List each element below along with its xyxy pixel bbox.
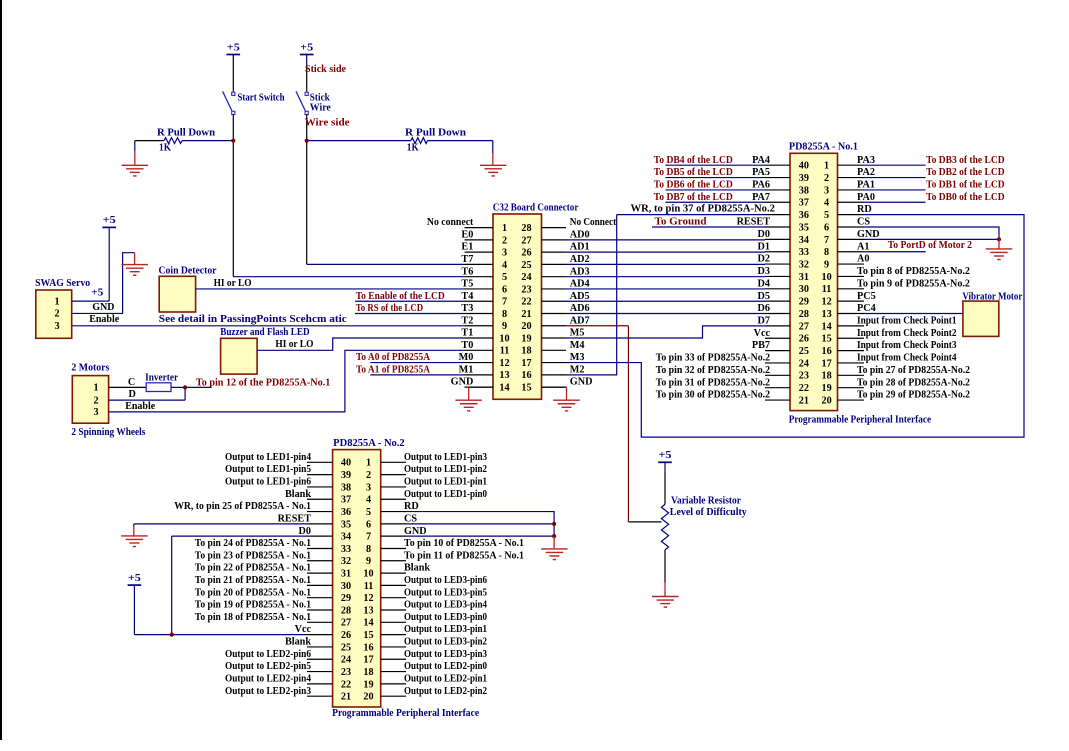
- svg-text:23: 23: [521, 284, 531, 295]
- svg-text:To DB4 of the LCD: To DB4 of the LCD: [654, 155, 733, 166]
- svg-text:32: 32: [799, 259, 809, 270]
- svg-text:Output to LED3-pin3: Output to LED3-pin3: [404, 649, 487, 660]
- svg-text:10: 10: [499, 333, 509, 344]
- svg-text:PD8255A - No.1: PD8255A - No.1: [789, 141, 858, 152]
- svg-text:Output to LED3-pin6: Output to LED3-pin6: [404, 575, 487, 586]
- svg-text:1: 1: [502, 223, 507, 234]
- svg-text:To DB5 of the LCD: To DB5 of the LCD: [654, 167, 733, 178]
- svg-text:Wire: Wire: [310, 103, 331, 114]
- svg-text:AD1: AD1: [570, 242, 590, 253]
- svg-text:2: 2: [824, 173, 829, 184]
- svg-text:PD8255A - No.2: PD8255A - No.2: [333, 438, 405, 449]
- svg-text:18: 18: [363, 667, 373, 678]
- svg-text:+5: +5: [227, 42, 240, 53]
- svg-text:38: 38: [341, 482, 351, 493]
- svg-text:27: 27: [341, 618, 351, 629]
- svg-text:To pin 22 of PD8255A - No.1: To pin 22 of PD8255A - No.1: [195, 563, 311, 574]
- svg-text:25: 25: [341, 642, 351, 653]
- svg-text:To pin 21 of PD8255A - No.1: To pin 21 of PD8255A - No.1: [195, 575, 311, 586]
- svg-text:3: 3: [824, 185, 829, 196]
- svg-text:PA7: PA7: [752, 192, 770, 203]
- svg-text:RD: RD: [857, 204, 872, 215]
- svg-text:9: 9: [366, 556, 371, 567]
- svg-text:30: 30: [799, 284, 809, 295]
- svg-text:R Pull Down: R Pull Down: [405, 127, 466, 138]
- svg-text:3: 3: [93, 407, 98, 418]
- svg-text:22: 22: [799, 383, 809, 394]
- svg-text:D4: D4: [758, 278, 770, 289]
- svg-text:AD0: AD0: [570, 229, 590, 240]
- svg-text:E1: E1: [461, 242, 473, 253]
- svg-text:32: 32: [341, 556, 351, 567]
- svg-text:6: 6: [502, 284, 507, 295]
- svg-text:17: 17: [521, 358, 531, 369]
- svg-text:30: 30: [341, 581, 351, 592]
- svg-text:5: 5: [824, 210, 829, 221]
- svg-text:Output to LED3-pin4: Output to LED3-pin4: [404, 600, 487, 611]
- svg-text:PA2: PA2: [857, 167, 875, 178]
- svg-text:10: 10: [822, 272, 832, 283]
- svg-text:T1: T1: [461, 328, 473, 339]
- svg-text:5: 5: [502, 272, 507, 283]
- svg-text:T2: T2: [461, 315, 473, 326]
- svg-text:To pin 31 of PD8255A-No.2: To pin 31 of PD8255A-No.2: [656, 377, 770, 388]
- svg-text:34: 34: [799, 235, 809, 246]
- svg-text:36: 36: [341, 507, 351, 518]
- svg-text:C32 Board Connector: C32 Board Connector: [493, 203, 579, 214]
- svg-text:23: 23: [341, 667, 351, 678]
- svg-text:CS: CS: [857, 217, 870, 228]
- svg-text:31: 31: [341, 568, 351, 579]
- svg-text:3: 3: [366, 482, 371, 493]
- svg-text:Variable Resistor: Variable Resistor: [671, 495, 741, 506]
- svg-text:D0: D0: [758, 229, 770, 240]
- svg-text:29: 29: [341, 593, 351, 604]
- svg-text:To Ground: To Ground: [655, 217, 707, 228]
- svg-text:2: 2: [93, 395, 98, 406]
- svg-text:22: 22: [521, 297, 531, 308]
- svg-text:19: 19: [822, 383, 832, 394]
- svg-text:11: 11: [364, 581, 374, 592]
- svg-text:To pin 9 of PD8255A-No.2: To pin 9 of PD8255A-No.2: [857, 278, 970, 289]
- svg-text:1: 1: [824, 161, 829, 172]
- svg-text:1K: 1K: [407, 143, 419, 154]
- svg-text:Output to LED1-pin3: Output to LED1-pin3: [404, 452, 487, 463]
- svg-text:PA6: PA6: [752, 180, 770, 191]
- svg-text:35: 35: [341, 519, 351, 530]
- svg-text:11: 11: [500, 346, 510, 357]
- svg-text:13: 13: [499, 370, 509, 381]
- svg-text:13: 13: [363, 605, 373, 616]
- svg-text:To RS of the LCD: To RS of the LCD: [356, 303, 423, 314]
- svg-text:To pin 30 of PD8255A-No.2: To pin 30 of PD8255A-No.2: [656, 390, 770, 401]
- svg-text:Wire side: Wire side: [305, 118, 351, 129]
- svg-text:To pin 27 of PD8255A-No.2: To pin 27 of PD8255A-No.2: [857, 365, 970, 376]
- svg-text:11: 11: [822, 284, 832, 295]
- svg-text:Output to LED2-pin1: Output to LED2-pin1: [404, 673, 487, 684]
- svg-text:4: 4: [824, 198, 829, 209]
- svg-text:2: 2: [54, 309, 59, 320]
- svg-text:24: 24: [341, 655, 351, 666]
- svg-text:M2: M2: [570, 364, 585, 375]
- svg-text:8: 8: [824, 247, 829, 258]
- svg-text:40: 40: [341, 458, 351, 469]
- svg-text:39: 39: [341, 470, 351, 481]
- svg-text:Programmable Peripheral Interf: Programmable Peripheral Interface: [332, 708, 479, 719]
- svg-text:Level of Difficulty: Level of Difficulty: [670, 507, 747, 518]
- svg-text:3: 3: [54, 321, 59, 332]
- svg-text:21: 21: [341, 692, 351, 703]
- svg-text:To pin 29 of PD8255A-No.2: To pin 29 of PD8255A-No.2: [857, 390, 970, 401]
- svg-text:Inverter: Inverter: [145, 372, 178, 383]
- svg-text:33: 33: [341, 544, 351, 555]
- svg-text:20: 20: [822, 395, 832, 406]
- svg-text:1: 1: [366, 458, 371, 469]
- svg-text:To PortD of Motor 2: To PortD of Motor 2: [888, 240, 972, 251]
- svg-text:5: 5: [366, 507, 371, 518]
- svg-text:Input from Check Point3: Input from Check Point3: [857, 340, 957, 351]
- svg-text:40: 40: [799, 161, 809, 172]
- svg-text:PA4: PA4: [752, 155, 770, 166]
- svg-text:AD2: AD2: [570, 254, 590, 265]
- svg-text:T4: T4: [461, 291, 473, 302]
- svg-text:35: 35: [799, 222, 809, 233]
- svg-text:28: 28: [341, 605, 351, 616]
- svg-text:37: 37: [799, 198, 809, 209]
- svg-text:To pin 20 of PD8255A - No.1: To pin 20 of PD8255A - No.1: [195, 587, 311, 598]
- svg-text:18: 18: [521, 346, 531, 357]
- svg-text:29: 29: [799, 297, 809, 308]
- svg-text:1: 1: [93, 383, 98, 394]
- svg-text:A0: A0: [857, 254, 869, 265]
- svg-text:6: 6: [824, 222, 829, 233]
- svg-text:15: 15: [822, 334, 832, 345]
- svg-text:RD: RD: [404, 501, 419, 512]
- svg-text:Output to LED2-pin3: Output to LED2-pin3: [225, 686, 311, 697]
- svg-text:27: 27: [799, 321, 809, 332]
- svg-text:26: 26: [341, 630, 351, 641]
- svg-text:Input from Check Point1: Input from Check Point1: [857, 315, 957, 326]
- svg-text:T6: T6: [461, 266, 473, 277]
- svg-text:2 Motors: 2 Motors: [71, 363, 109, 374]
- svg-text:PC5: PC5: [857, 291, 876, 302]
- svg-text:See detail in PassingPoints Sc: See detail in PassingPoints Scehcm atic: [159, 314, 348, 325]
- svg-text:21: 21: [521, 309, 531, 320]
- svg-text:31: 31: [799, 272, 809, 283]
- svg-text:No connect: No connect: [427, 217, 474, 228]
- svg-text:D0: D0: [299, 526, 311, 537]
- svg-text:To pin 12 of the PD8255A-No.1: To pin 12 of the PD8255A-No.1: [196, 378, 330, 389]
- svg-text:Vcc: Vcc: [754, 328, 771, 339]
- svg-text:2: 2: [366, 470, 371, 481]
- svg-text:To DB0 of the LCD: To DB0 of the LCD: [926, 192, 1005, 203]
- svg-text:T7: T7: [461, 254, 473, 265]
- svg-text:24: 24: [799, 358, 809, 369]
- svg-text:RESET: RESET: [737, 217, 771, 228]
- svg-text:Output to LED1-pin0: Output to LED1-pin0: [404, 489, 487, 500]
- svg-text:PA1: PA1: [857, 180, 875, 191]
- svg-text:Coin Detector: Coin Detector: [159, 265, 217, 276]
- svg-text:To pin 32 of PD8255A-No.2: To pin 32 of PD8255A-No.2: [656, 365, 770, 376]
- svg-text:12: 12: [822, 297, 832, 308]
- svg-text:D5: D5: [758, 291, 770, 302]
- svg-text:23: 23: [799, 371, 809, 382]
- svg-text:12: 12: [499, 358, 509, 369]
- svg-text:Output to LED3-pin5: Output to LED3-pin5: [404, 587, 487, 598]
- svg-text:A1: A1: [857, 241, 869, 252]
- svg-text:Enable: Enable: [125, 401, 155, 412]
- svg-text:To A0 of PD8255A: To A0 of PD8255A: [356, 352, 431, 363]
- svg-text:T3: T3: [461, 303, 473, 314]
- svg-text:To Enable of the LCD: To Enable of the LCD: [356, 291, 445, 302]
- svg-text:R Pull Down: R Pull Down: [157, 127, 215, 138]
- svg-text:Buzzer and Flash LED: Buzzer and Flash LED: [220, 327, 309, 338]
- svg-text:Output to LED1-pin2: Output to LED1-pin2: [404, 464, 487, 475]
- svg-text:Vibrator Motor: Vibrator Motor: [962, 292, 1022, 303]
- svg-text:D: D: [129, 389, 136, 400]
- svg-text:15: 15: [363, 630, 373, 641]
- svg-text:To DB2 of the LCD: To DB2 of the LCD: [926, 167, 1005, 178]
- svg-text:Vcc: Vcc: [295, 624, 312, 635]
- svg-text:Output to LED1-pin5: Output to LED1-pin5: [225, 464, 311, 475]
- svg-text:Blank: Blank: [404, 563, 430, 574]
- svg-text:22: 22: [341, 679, 351, 690]
- svg-text:19: 19: [521, 333, 531, 344]
- svg-text:Blank: Blank: [285, 637, 311, 648]
- svg-text:D6: D6: [758, 303, 770, 314]
- svg-text:SWAG Servo: SWAG Servo: [35, 278, 90, 289]
- svg-text:To A1 of PD8255A: To A1 of PD8255A: [356, 365, 431, 376]
- svg-text:Stick side: Stick side: [305, 64, 346, 75]
- svg-text:C: C: [128, 377, 135, 388]
- svg-text:Programmable Peripheral Interf: Programmable Peripheral Interface: [789, 414, 932, 425]
- svg-text:GND: GND: [451, 377, 474, 388]
- svg-text:20: 20: [521, 321, 531, 332]
- svg-text:To pin 10 of PD8255A - No.1: To pin 10 of PD8255A - No.1: [404, 538, 524, 549]
- svg-text:26: 26: [799, 334, 809, 345]
- svg-text:25: 25: [521, 260, 531, 271]
- svg-text:8: 8: [502, 309, 507, 320]
- svg-text:14: 14: [499, 383, 509, 394]
- svg-text:Output to LED1-pin6: Output to LED1-pin6: [225, 477, 311, 488]
- svg-text:+5: +5: [659, 450, 672, 461]
- svg-text:Blank: Blank: [285, 489, 311, 500]
- svg-text:Input from Check Point2: Input from Check Point2: [857, 328, 957, 339]
- svg-text:To pin 28 of PD8255A-No.2: To pin 28 of PD8255A-No.2: [857, 377, 970, 388]
- svg-text:To DB6 of the LCD: To DB6 of the LCD: [654, 180, 733, 191]
- svg-text:M4: M4: [570, 340, 585, 351]
- svg-text:AD3: AD3: [570, 266, 590, 277]
- svg-text:25: 25: [799, 346, 809, 357]
- svg-text:26: 26: [521, 248, 531, 259]
- svg-text:28: 28: [521, 223, 531, 234]
- svg-text:AD4: AD4: [570, 279, 590, 290]
- svg-text:3: 3: [502, 248, 507, 259]
- svg-text:D2: D2: [758, 254, 770, 265]
- svg-text:24: 24: [521, 272, 531, 283]
- svg-text:Input from Check Point4: Input from Check Point4: [857, 353, 957, 364]
- svg-text:D3: D3: [758, 266, 770, 277]
- svg-text:17: 17: [363, 655, 373, 666]
- svg-text:Output to LED1-pin1: Output to LED1-pin1: [404, 477, 487, 488]
- svg-text:GND: GND: [570, 377, 593, 388]
- svg-text:Output to LED2-pin0: Output to LED2-pin0: [404, 661, 487, 672]
- svg-text:To pin 11 of PD8255A - No.1: To pin 11 of PD8255A - No.1: [404, 550, 524, 561]
- svg-text:18: 18: [822, 371, 832, 382]
- svg-text:To DB1 of the LCD: To DB1 of the LCD: [926, 180, 1005, 191]
- svg-text:WR, to pin 37 of PD8255A-No.2: WR, to pin 37 of PD8255A-No.2: [631, 204, 775, 215]
- svg-text:PA5: PA5: [752, 167, 770, 178]
- svg-text:To DB7 of the LCD: To DB7 of the LCD: [654, 192, 733, 203]
- svg-text:2: 2: [502, 235, 507, 246]
- svg-text:E0: E0: [461, 229, 473, 240]
- svg-text:1K: 1K: [159, 143, 171, 154]
- svg-text:T0: T0: [461, 340, 473, 351]
- svg-text:37: 37: [341, 495, 351, 506]
- svg-text:RESET: RESET: [278, 513, 312, 524]
- svg-text:38: 38: [799, 185, 809, 196]
- svg-text:7: 7: [366, 532, 371, 543]
- svg-text:AD5: AD5: [570, 291, 590, 302]
- svg-text:M5: M5: [570, 328, 585, 339]
- svg-text:6: 6: [366, 519, 371, 530]
- svg-text:33: 33: [799, 247, 809, 258]
- svg-text:T5: T5: [461, 279, 473, 290]
- svg-text:M3: M3: [570, 352, 585, 363]
- svg-text:16: 16: [363, 642, 373, 653]
- svg-text:Output to LED2-pin6: Output to LED2-pin6: [225, 649, 311, 660]
- svg-text:D7: D7: [758, 315, 770, 326]
- svg-text:No Connect: No Connect: [570, 217, 617, 228]
- svg-text:CS: CS: [404, 513, 417, 524]
- svg-text:7: 7: [502, 297, 507, 308]
- svg-text:Output to LED2-pin2: Output to LED2-pin2: [404, 686, 487, 697]
- svg-text:14: 14: [363, 618, 373, 629]
- svg-text:7: 7: [824, 235, 829, 246]
- svg-text:HI or LO: HI or LO: [214, 278, 252, 289]
- svg-text:36: 36: [799, 210, 809, 221]
- svg-text:M0: M0: [459, 352, 474, 363]
- svg-text:M1: M1: [459, 364, 474, 375]
- svg-text:PA3: PA3: [857, 155, 875, 166]
- svg-text:WR, to pin 25 of PD8255A - No.: WR, to pin 25 of PD8255A - No.1: [174, 501, 311, 512]
- svg-text:13: 13: [822, 309, 832, 320]
- svg-text:+5: +5: [300, 42, 313, 53]
- svg-text:+5: +5: [91, 288, 103, 299]
- svg-text:16: 16: [822, 346, 832, 357]
- svg-text:+5: +5: [103, 215, 116, 226]
- svg-text:Output to LED2-pin5: Output to LED2-pin5: [225, 661, 311, 672]
- svg-text:39: 39: [799, 173, 809, 184]
- svg-text:27: 27: [521, 235, 531, 246]
- svg-text:8: 8: [366, 544, 371, 555]
- svg-text:PA0: PA0: [857, 192, 875, 203]
- svg-text:To pin 18 of PD8255A - No.1: To pin 18 of PD8255A - No.1: [195, 612, 311, 623]
- svg-text:14: 14: [822, 321, 832, 332]
- svg-text:D1: D1: [758, 241, 770, 252]
- svg-text:Output to LED3-pin0: Output to LED3-pin0: [404, 612, 487, 623]
- svg-text:Output to LED2-pin4: Output to LED2-pin4: [225, 673, 311, 684]
- svg-text:Output to LED3-pin2: Output to LED3-pin2: [404, 637, 487, 648]
- svg-text:GND: GND: [92, 302, 114, 313]
- svg-text:PC4: PC4: [857, 303, 876, 314]
- svg-text:34: 34: [341, 532, 351, 543]
- svg-text:17: 17: [822, 358, 832, 369]
- svg-text:4: 4: [502, 260, 507, 271]
- svg-text:Enable: Enable: [89, 314, 119, 325]
- svg-text:15: 15: [521, 383, 531, 394]
- svg-text:Output to LED1-pin4: Output to LED1-pin4: [225, 452, 311, 463]
- svg-text:28: 28: [799, 309, 809, 320]
- svg-text:To pin 23 of PD8255A - No.1: To pin 23 of PD8255A - No.1: [195, 550, 311, 561]
- svg-text:AD7: AD7: [570, 315, 590, 326]
- svg-text:+5: +5: [128, 573, 141, 584]
- svg-text:HI or LO: HI or LO: [275, 339, 313, 350]
- svg-text:To DB3 of the LCD: To DB3 of the LCD: [926, 155, 1005, 166]
- svg-text:AD6: AD6: [570, 303, 590, 314]
- svg-text:GND: GND: [857, 229, 880, 240]
- svg-text:GND: GND: [404, 526, 427, 537]
- svg-text:PB7: PB7: [752, 340, 770, 351]
- svg-text:Output to LED3-pin1: Output to LED3-pin1: [404, 624, 487, 635]
- svg-text:20: 20: [363, 692, 373, 703]
- svg-text:21: 21: [799, 395, 809, 406]
- svg-text:2 Spinning Wheels: 2 Spinning Wheels: [71, 427, 145, 438]
- svg-text:To pin 19 of PD8255A - No.1: To pin 19 of PD8255A - No.1: [195, 600, 311, 611]
- svg-text:16: 16: [521, 370, 531, 381]
- svg-text:4: 4: [366, 495, 371, 506]
- svg-text:12: 12: [363, 593, 373, 604]
- svg-text:To pin 33 of PD8255A-No.2: To pin 33 of PD8255A-No.2: [656, 353, 770, 364]
- svg-text:9: 9: [824, 259, 829, 270]
- svg-text:Start Switch: Start Switch: [238, 93, 285, 104]
- svg-text:To pin 24 of PD8255A - No.1: To pin 24 of PD8255A - No.1: [195, 538, 311, 549]
- svg-text:9: 9: [502, 321, 507, 332]
- svg-text:19: 19: [363, 679, 373, 690]
- svg-text:To pin 8 of PD8255A-No.2: To pin 8 of PD8255A-No.2: [857, 266, 970, 277]
- svg-text:1: 1: [54, 296, 59, 307]
- svg-text:10: 10: [363, 568, 373, 579]
